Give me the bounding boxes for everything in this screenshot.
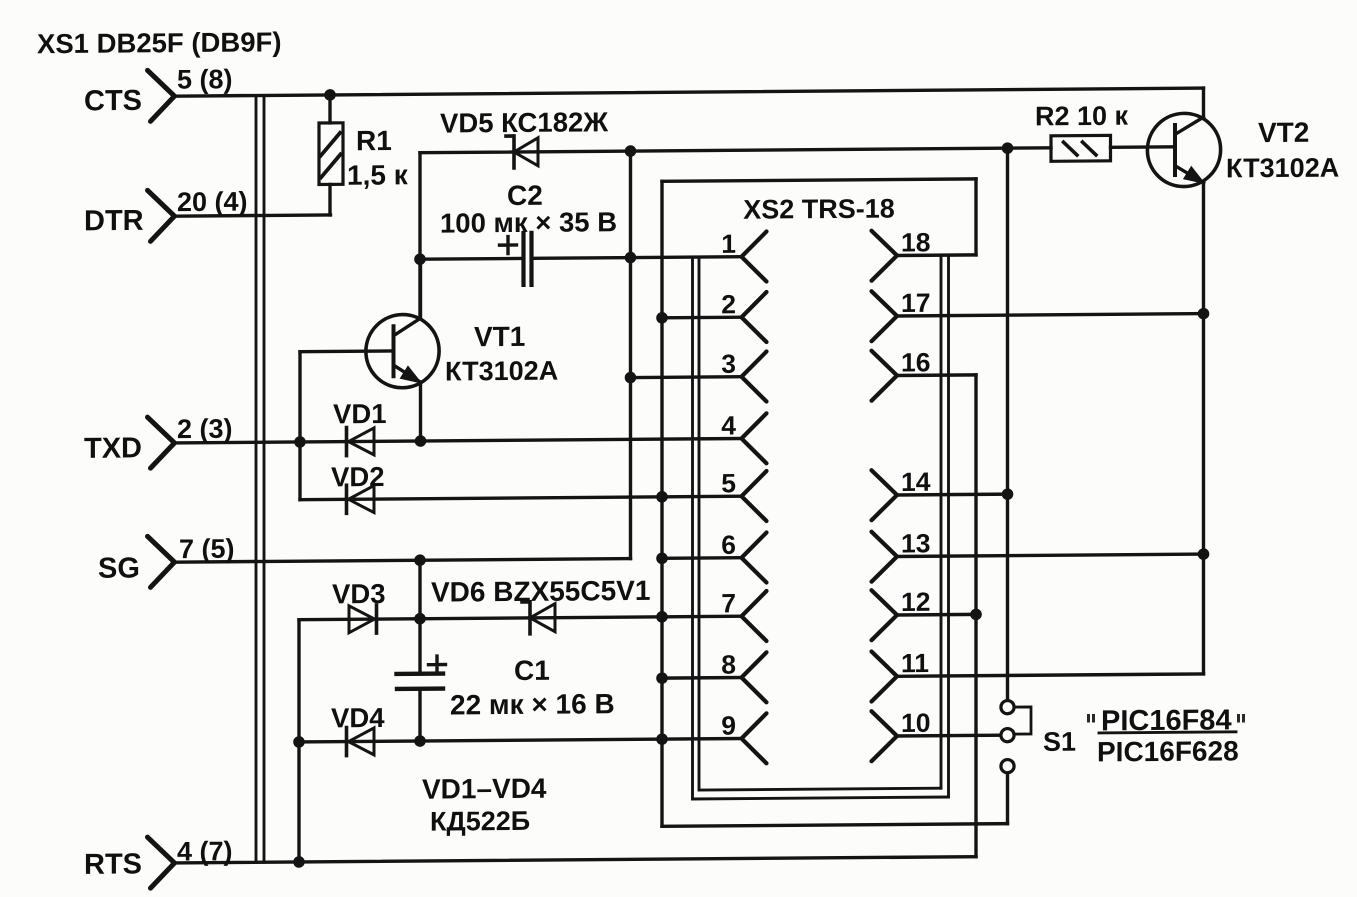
- wire pin10 row: [897, 733, 1001, 737]
- pin 12 arrow: [872, 590, 898, 640]
- wire VT2 collector vert x1203: [1202, 88, 1205, 117]
- XS1 PIN ARROWS: [148, 70, 175, 888]
- node junction VD4 row left: [293, 736, 305, 748]
- wire VD5 row: [420, 148, 1051, 153]
- wire bus bottom: [662, 824, 1008, 827]
- wire inner rect right inner: [940, 255, 943, 788]
- wire pin11 row: [897, 674, 1204, 676]
- pin 5 arrow: [742, 471, 767, 521]
- XS2 INNER SOCKET RECT: [693, 255, 949, 799]
- label quote left: [1087, 714, 1095, 723]
- pin 16 arrow: [872, 351, 898, 401]
- RIGHT SIDE WIRES: [656, 88, 1209, 859]
- svg-text:SG: SG: [98, 552, 140, 584]
- svg-text:C1: C1: [514, 655, 550, 686]
- wire CTS top rail: [175, 88, 1204, 96]
- WIRES-LEFT: [175, 82, 1204, 868]
- node junction pin9/bus: [656, 733, 668, 745]
- diode VD2: [347, 485, 375, 513]
- svg-text:КТ3102А: КТ3102А: [445, 356, 558, 387]
- svg-text:7 (5): 7 (5): [179, 534, 235, 564]
- node junction pin13/VT2 emitter: [1198, 548, 1210, 560]
- svg-text:5: 5: [721, 468, 736, 498]
- wire pin17 row: [897, 314, 1204, 316]
- pin 14 arrow: [872, 470, 898, 520]
- wire C2/pin1 row: [420, 257, 742, 260]
- node junction TXD/VT1 emitter: [415, 435, 427, 447]
- node junction R2 left: [1002, 142, 1014, 154]
- transistor VT1: [300, 259, 439, 442]
- XS2 PIN ARROWS RIGHT: [872, 231, 898, 762]
- wire left vert x420 VD5-VT1: [418, 153, 421, 315]
- node junction TXD/x300: [294, 436, 306, 448]
- CONNECTOR XS1 double line: [256, 95, 264, 862]
- svg-text:6: 6: [721, 530, 736, 560]
- pin 9 arrow: [742, 713, 767, 763]
- svg-text:100 мк × 35 В: 100 мк × 35 В: [440, 206, 617, 238]
- pin TXD arrow: [148, 417, 175, 468]
- node junction pin5/bus: [656, 491, 668, 503]
- svg-text:R1: R1: [356, 125, 392, 156]
- pin CTS arrow: [148, 70, 175, 121]
- wire band top XS2: [662, 179, 976, 181]
- svg-text:XS2 TRS-18: XS2 TRS-18: [743, 194, 895, 225]
- svg-text:16: 16: [901, 347, 930, 377]
- wire inner rect bottom outer: [693, 797, 949, 799]
- node junction pin12/x976: [970, 609, 982, 621]
- pin 17 arrow: [872, 291, 898, 341]
- svg-text:18: 18: [901, 227, 930, 257]
- wire VT1 base branch vert x300: [298, 352, 301, 500]
- svg-text:9: 9: [721, 711, 736, 741]
- svg-text:13: 13: [901, 528, 930, 558]
- pin 4 arrow: [742, 413, 767, 463]
- wire DTR row: [175, 215, 331, 216]
- capacitor C2: [500, 233, 532, 285]
- wire RTS row: [175, 857, 977, 863]
- pin RTS arrow: [148, 837, 175, 888]
- label fraction bar: [1099, 732, 1236, 733]
- wire pin3 row: [631, 375, 742, 379]
- svg-text:VD1–VD4: VD1–VD4: [422, 773, 547, 805]
- node junction C2 row / x630: [625, 252, 637, 264]
- svg-text:R2 10 к: R2 10 к: [1035, 101, 1129, 132]
- PIN NUMBERS: [721, 227, 930, 740]
- node junction pin8/bus: [656, 672, 668, 684]
- wire VD2/pin5 row: [300, 496, 742, 499]
- wire SG row: [175, 559, 631, 563]
- label quote right: [1237, 714, 1245, 723]
- wire XS1 boundary line 1: [255, 96, 258, 863]
- wire vert x976 pin16-RTS: [974, 375, 977, 857]
- pin 10 arrow: [872, 711, 898, 761]
- wire inner rect right outer: [947, 255, 950, 797]
- svg-text:VT2: VT2: [1258, 117, 1309, 148]
- wire S1 top feed vert x1007: [1006, 148, 1009, 701]
- node junction VD4/C1: [414, 735, 426, 747]
- svg-text:2: 2: [721, 289, 736, 319]
- svg-text:VD4: VD4: [331, 702, 385, 733]
- node junction pin17/VT2 emitter: [1198, 308, 1210, 320]
- zener diode VD6: [522, 602, 555, 634]
- resistor R2: [1051, 135, 1175, 161]
- wire vert x630: [629, 151, 632, 559]
- wire inner rect left inner: [698, 257, 701, 790]
- svg-text:CTS: CTS: [84, 85, 142, 117]
- diode VD3: [349, 605, 377, 633]
- wire S1 bottom to bus: [1006, 773, 1009, 824]
- svg-text:17: 17: [901, 288, 930, 318]
- wire pin13 row: [897, 554, 1204, 556]
- svg-text:3: 3: [721, 349, 736, 379]
- pin DTR arrow: [148, 190, 175, 241]
- capacitor C1: [397, 656, 446, 689]
- wire inner rect left outer: [691, 257, 694, 799]
- svg-text:PIC16F628: PIC16F628: [1097, 735, 1239, 767]
- wire VD4/pin9 row: [299, 739, 742, 742]
- node junction RTS/x299: [293, 856, 305, 868]
- wire VT2 emitter vert x1203: [1202, 183, 1205, 674]
- svg-text:1: 1: [721, 229, 736, 259]
- wire pin8 row: [662, 676, 742, 680]
- svg-text:5 (8): 5 (8): [177, 64, 233, 94]
- svg-text:8: 8: [721, 650, 736, 680]
- svg-text:22 мк × 16 В: 22 мк × 16 В: [450, 688, 615, 720]
- svg-text:S1: S1: [1043, 727, 1076, 757]
- svg-text:КТ3102А: КТ3102А: [1226, 153, 1339, 184]
- resistor R1: [319, 95, 343, 215]
- svg-text:VD6 BZX55C5V1: VD6 BZX55C5V1: [431, 575, 650, 608]
- node junction SG/C1 branch: [414, 554, 426, 566]
- node junction pin7 row/C1: [414, 613, 426, 625]
- svg-text:4: 4: [721, 411, 736, 441]
- node junction C2 row / VT1 collector: [414, 253, 426, 265]
- pin 2 arrow: [742, 292, 767, 342]
- wire band right edge: [974, 179, 977, 255]
- node junction pin7/bus: [656, 611, 668, 623]
- svg-text:XS1 DB25F (DB9F): XS1 DB25F (DB9F): [37, 26, 281, 59]
- pin 18 arrow: [872, 231, 898, 281]
- wire VD3/VD6/pin7 row: [299, 616, 742, 619]
- svg-text:2 (3): 2 (3): [177, 414, 233, 444]
- svg-text:VT1: VT1: [474, 321, 525, 352]
- svg-text:VD3: VD3: [332, 578, 385, 609]
- svg-text:RTS: RTS: [84, 848, 142, 880]
- svg-text:1,5 к: 1,5 к: [347, 159, 409, 190]
- pin SG arrow: [148, 536, 175, 587]
- svg-text:VD5 КС182Ж: VD5 КС182Ж: [440, 106, 608, 138]
- svg-text:DTR: DTR: [84, 205, 144, 237]
- wire pin2 row: [662, 316, 742, 320]
- wire inner rect bottom inner: [699, 788, 941, 790]
- svg-text:14: 14: [901, 467, 931, 497]
- wire bus vert x662: [660, 181, 663, 826]
- node junction CTS/R1: [324, 89, 336, 101]
- node junction VD5/x630: [625, 145, 637, 157]
- svg-text:VD2: VD2: [331, 461, 384, 492]
- svg-text:12: 12: [901, 587, 930, 617]
- pin 11 arrow: [872, 651, 898, 701]
- pin 1 arrow: [742, 232, 767, 282]
- diode VD4: [347, 727, 375, 755]
- svg-text:4 (7): 4 (7): [177, 836, 233, 866]
- svg-text:10: 10: [901, 708, 930, 738]
- node junction pin14/x1007: [1002, 488, 1014, 500]
- svg-text:11: 11: [901, 648, 929, 678]
- node junction pin3/x630: [625, 372, 637, 384]
- wire pin12 row: [897, 613, 976, 617]
- node junction pin2/bus: [656, 312, 668, 324]
- pin 13 arrow: [872, 532, 898, 582]
- wire pin14 row: [897, 492, 1008, 496]
- pin 6 arrow: [742, 533, 767, 583]
- pin 7 arrow: [742, 591, 767, 641]
- wire pin6 row: [662, 556, 742, 560]
- wire pin16 row: [897, 373, 976, 377]
- svg-text:20 (4): 20 (4): [177, 187, 248, 218]
- XS2 PIN ARROWS LEFT: [742, 232, 767, 764]
- switch S1: [1001, 700, 1031, 772]
- transistor VT2: [1147, 113, 1220, 187]
- svg-text:КД522Б: КД522Б: [430, 806, 530, 837]
- zener diode VD5: [506, 136, 538, 168]
- wire vert x299 VD3-RTS: [297, 620, 300, 862]
- wire pin18 row: [897, 253, 976, 257]
- pin 3 arrow: [742, 352, 767, 402]
- svg-text:VD1: VD1: [333, 398, 386, 429]
- wire TXD/pin4 row: [175, 439, 742, 443]
- wire C1 branch vert x420: [418, 560, 421, 741]
- svg-text:TXD: TXD: [84, 432, 142, 464]
- node junction pin6/bus: [656, 552, 668, 564]
- svg-text:7: 7: [721, 588, 736, 618]
- pin 8 arrow: [742, 652, 767, 702]
- wire XS1 boundary line 2: [263, 95, 266, 862]
- diode VD1: [347, 427, 375, 455]
